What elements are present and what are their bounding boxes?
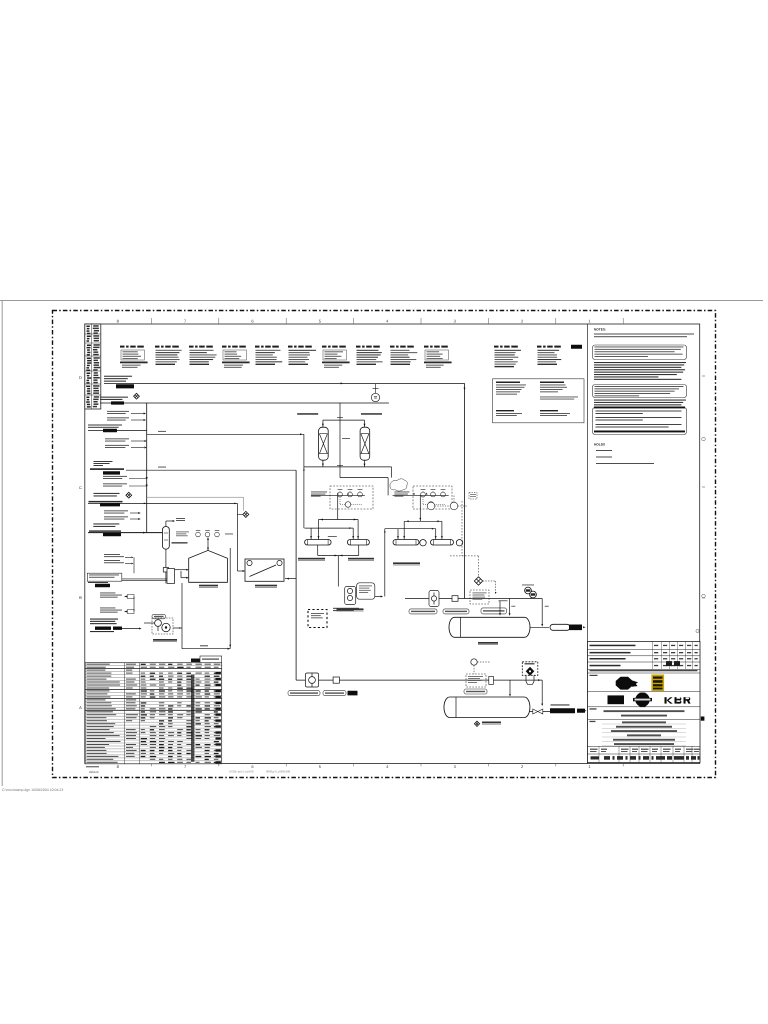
wire drum2 outlet bbox=[529, 711, 550, 713]
wire exchanger A drops bbox=[318, 520, 320, 540]
drum BD-V-1 bbox=[449, 617, 530, 637]
wire regen crossover bbox=[391, 467, 393, 478]
pentagon label bbox=[199, 585, 218, 587]
drum 2 label bbox=[474, 721, 479, 726]
wire package out to riser bbox=[375, 596, 381, 598]
svg-text:A: A bbox=[79, 705, 82, 710]
sheet left edge line bbox=[1, 301, 3, 787]
wire conveyor down leg bbox=[229, 548, 231, 649]
svg-text:B: B bbox=[79, 595, 82, 600]
exchanger E-1 A bbox=[305, 540, 332, 546]
plot border dashed bbox=[53, 311, 716, 778]
dryer vessel 1 bbox=[319, 427, 329, 460]
node line 2 tag bbox=[100, 397, 128, 398]
pump package BD-P bbox=[357, 583, 375, 599]
end-of-row tag bbox=[571, 345, 582, 349]
legend sidebar table bbox=[85, 324, 101, 409]
pump unit BD-C bbox=[152, 618, 173, 634]
dashed box above drum2 bbox=[466, 674, 486, 687]
duct double line to elevator bbox=[122, 578, 167, 580]
wire drop to drum1 bbox=[509, 599, 511, 614]
node inlet tag top bbox=[104, 376, 132, 377]
wire column bottom out bbox=[165, 549, 167, 568]
drawing frame border bbox=[85, 324, 700, 764]
pentagon vessel ED-T bbox=[189, 550, 228, 582]
wire adsorbent to pump unit bbox=[122, 628, 140, 630]
left outflow labels group 5 bbox=[100, 592, 115, 595]
adsorbent label cluster bbox=[90, 619, 118, 620]
GA label box bbox=[152, 614, 166, 619]
svg-text:C:\mcs\stamp.dgn 10/08/2004 1: C:\mcs\stamp.dgn 10/08/2004 10:04:23 bbox=[2, 788, 63, 792]
left line tag row 5 bbox=[94, 493, 120, 494]
wire long bottom line to drum2 area bbox=[296, 680, 542, 683]
pump unit label bbox=[153, 639, 177, 641]
wire faint header to diamond bbox=[147, 496, 244, 498]
wire drum1 outlet right bbox=[530, 626, 549, 628]
dashed instrument box right bbox=[470, 590, 489, 604]
wire into pentagon bbox=[175, 569, 187, 571]
wire conveyor link to riser bbox=[285, 578, 296, 580]
tag under boxed note bbox=[88, 582, 108, 583]
LIT transmitter pair bbox=[525, 587, 532, 594]
KBR logo text bbox=[665, 697, 667, 703]
sheet top edge line bbox=[0, 300, 763, 302]
left line tag row 4 bbox=[94, 461, 113, 462]
wire pentagon leftdown riser bbox=[181, 583, 183, 649]
wire between dryers regen bbox=[339, 403, 341, 478]
JGC black rect logo bbox=[608, 695, 625, 704]
wire pump unit outlet bbox=[173, 627, 182, 629]
wire drop to pump package bbox=[337, 556, 339, 587]
SP vent assembly bbox=[522, 662, 538, 676]
exchanger E-1 B bbox=[347, 540, 369, 546]
train B lower assembly bbox=[429, 591, 439, 607]
drum BD-V-2 bbox=[444, 697, 530, 718]
wire sp riser to drum2 bbox=[541, 680, 543, 704]
title row text bbox=[590, 721, 596, 722]
exchanger E-2 A bbox=[393, 540, 419, 546]
inline fitting bbox=[163, 568, 168, 573]
bottom grid of title block bbox=[588, 745, 701, 747]
wire train A out header bbox=[317, 545, 319, 556]
zone tick marks right frame bbox=[702, 375, 705, 377]
wire main header line bbox=[104, 382, 465, 384]
left line tag row 3 bbox=[88, 425, 122, 426]
wire dryer feed downleg bbox=[303, 434, 305, 528]
divider title row bbox=[588, 719, 701, 721]
diamond symbol node bbox=[126, 492, 132, 498]
dryer vessel 1 label bbox=[297, 413, 318, 415]
top label blocks row bbox=[120, 346, 125, 348]
train B labels row bbox=[409, 609, 437, 614]
wire dryer feed line A bbox=[147, 433, 304, 435]
stream table bbox=[85, 663, 222, 764]
dotted unit label bbox=[333, 608, 359, 609]
drum 1 label bbox=[478, 642, 498, 644]
wire drain riser left bbox=[133, 597, 135, 612]
wire instrument line B bbox=[393, 494, 449, 496]
conveyor label bbox=[255, 585, 277, 587]
svg-text:NOTES:: NOTES: bbox=[594, 328, 606, 332]
title column divider bbox=[587, 324, 589, 764]
wire drop into drum2 bbox=[509, 680, 511, 694]
svg-text:USGE-pid-1-cad-08: USGE-pid-1-cad-08 bbox=[229, 770, 254, 774]
wire dryer inlet header bbox=[323, 419, 365, 421]
left inflow labels group 2 bbox=[105, 437, 129, 440]
tie-in labels pair bbox=[104, 553, 120, 556]
outlet tag black bbox=[551, 704, 570, 705]
wire long transfer line bbox=[126, 469, 296, 471]
black dotted unit box bbox=[308, 610, 327, 628]
divider logos row bbox=[588, 690, 701, 692]
svg-text:default: default bbox=[89, 770, 99, 774]
divider project row bbox=[588, 706, 701, 708]
left inflow labels group 4 bbox=[104, 509, 128, 512]
wire train A manifold bbox=[319, 519, 359, 521]
project row text bbox=[590, 708, 597, 709]
wire drum1 inlet from pump row bbox=[499, 601, 501, 613]
exchanger E-2 B bbox=[431, 540, 454, 546]
wire train B feed line bbox=[385, 528, 436, 530]
svg-text:HOLDS: HOLDS bbox=[594, 443, 605, 447]
cluster B side symbol bbox=[469, 493, 477, 500]
instrument circles train B bbox=[427, 502, 435, 510]
small fitting on vert bbox=[489, 676, 494, 684]
strainer assembly right bbox=[550, 624, 570, 630]
cloud revision mark bbox=[390, 479, 407, 491]
instrument flag on main header bbox=[371, 393, 379, 401]
wire long riser down bbox=[295, 470, 297, 680]
wire column top vent bbox=[165, 521, 167, 527]
wire train A feed line bbox=[305, 527, 354, 529]
pump circle B1 bbox=[420, 540, 426, 546]
wire heavy feed to column bbox=[88, 532, 163, 534]
wire drop to drum1 outlet bbox=[541, 599, 543, 626]
client logo octagon bbox=[616, 677, 633, 690]
inline pump on bottom line bbox=[306, 673, 319, 687]
title block bbox=[588, 642, 701, 763]
pump package label bbox=[337, 608, 364, 610]
svg-text:D: D bbox=[79, 375, 82, 380]
wire train B manifold bbox=[404, 520, 442, 522]
column label bbox=[172, 542, 188, 543]
sonatrach yellow logo bbox=[651, 675, 664, 692]
inline valve on bottom line bbox=[333, 677, 339, 683]
left inflow labels group 1 bbox=[107, 410, 129, 413]
bottom line labels bbox=[288, 691, 320, 696]
vent diamond stub bbox=[237, 513, 242, 515]
vent label bbox=[176, 517, 185, 520]
boxed note left bbox=[87, 573, 122, 581]
left line tag row 6 bbox=[93, 523, 119, 524]
wire pentagon top instrument bbox=[207, 538, 209, 551]
wire instrument line A bbox=[311, 494, 365, 496]
conveyor box BT-T bbox=[245, 559, 284, 581]
wire secondary header bbox=[100, 402, 389, 404]
instrument cluster B bbox=[413, 486, 452, 509]
zone circle markers right bbox=[702, 437, 706, 441]
wire right riser bbox=[464, 383, 466, 598]
wire dashed down from cluster B bbox=[461, 501, 463, 556]
client row label bbox=[590, 675, 598, 676]
instrument row above ED-T bbox=[176, 531, 189, 534]
wire train B bottom line bbox=[405, 598, 429, 600]
column vessel BD-V small bbox=[163, 527, 170, 550]
elevator duct box bbox=[167, 569, 175, 584]
wire exchanger B drops bbox=[403, 521, 405, 539]
svg-text:0800g/TLx0985408: 0800g/TLx0985408 bbox=[266, 770, 291, 774]
svg-text:C: C bbox=[79, 485, 82, 490]
dryer vessel 2 label bbox=[361, 413, 382, 415]
wire left main riser bbox=[146, 403, 148, 533]
instrument PSV diamond bbox=[476, 578, 482, 584]
wire bottom header nnn bbox=[182, 648, 230, 650]
wire mid riser bbox=[236, 503, 238, 571]
pump circle B2 bbox=[456, 540, 462, 546]
exchanger labels bbox=[298, 558, 325, 560]
round consortium logo bbox=[635, 693, 649, 707]
frame corner tiny text bbox=[86, 766, 99, 767]
design data boxed panel bbox=[493, 379, 585, 423]
instrument circle above drum2 bbox=[471, 659, 477, 665]
wire tag5 header bbox=[88, 502, 237, 504]
instrument cluster A bbox=[330, 486, 373, 509]
wire dryer outlet header bbox=[322, 460, 324, 467]
dryer vessel 2 bbox=[360, 427, 370, 460]
revision triangle marker right bbox=[701, 717, 705, 721]
left outflow labels group 3 bbox=[103, 475, 127, 478]
wire into conveyor bbox=[238, 570, 244, 572]
